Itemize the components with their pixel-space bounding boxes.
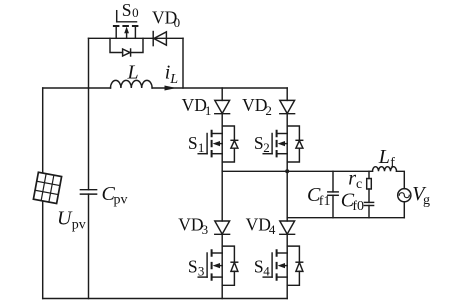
diode VD0: [153, 32, 166, 46]
diode VD3: [215, 171, 230, 298]
arrow i_L: [165, 86, 177, 91]
wire: S0 branch left vertical: [88, 38, 90, 88]
diode: S2 body diode branch: [287, 126, 303, 162]
svg-text:4: 4: [269, 222, 276, 237]
wire: filter bottom rail: [287, 217, 404, 219]
svg-text:1: 1: [198, 140, 205, 155]
wire: left outer vertical (PV branch): [42, 88, 44, 299]
wire: top main line left of inductor: [43, 87, 111, 89]
transistor S3: [198, 250, 222, 279]
wire: bottom rail: [43, 298, 288, 300]
drain stub: [115, 26, 117, 38]
transistor S4: [263, 250, 287, 279]
svg-text:3: 3: [198, 263, 205, 278]
svg-text:c: c: [356, 177, 362, 192]
wire: S0 branch top left segment: [89, 37, 117, 39]
svg-text:0: 0: [174, 15, 181, 30]
wire: S0 branch right vertical: [182, 38, 184, 88]
ac source Vg: [398, 189, 411, 218]
svg-text:pv: pv: [114, 192, 128, 207]
svg-text:4: 4: [263, 263, 270, 278]
svg-text:S: S: [188, 256, 198, 276]
capacitor Cf1: [328, 171, 338, 217]
inductor L: [111, 80, 153, 88]
channel segments: [114, 25, 137, 27]
svg-text:VD: VD: [178, 215, 203, 235]
svg-text:f: f: [390, 155, 395, 170]
resistor rc: [367, 171, 372, 202]
diode VD1: [215, 88, 230, 171]
wire: mid rail (node A): [222, 170, 372, 172]
svg-text:L: L: [169, 72, 178, 87]
wire: S0 branch right segment: [135, 37, 183, 39]
svg-text:pv: pv: [72, 217, 86, 232]
source stub: [134, 26, 136, 38]
diode: S4 body diode branch: [287, 246, 303, 285]
svg-text:U: U: [57, 208, 73, 230]
wire: Lf to corner: [397, 171, 405, 188]
capacitor Cpv: [80, 88, 96, 299]
svg-text:2: 2: [263, 140, 270, 155]
svg-text:g: g: [423, 193, 430, 208]
diode: S3 body diode branch: [222, 246, 238, 285]
svg-text:L: L: [378, 146, 390, 168]
svg-text:1: 1: [205, 103, 212, 118]
diode VD2: [280, 88, 295, 171]
transistor S0 (horizontal MOSFET): [114, 11, 137, 39]
svg-text:S: S: [122, 0, 132, 20]
solar panel Upv: [33, 172, 61, 203]
svg-text:0: 0: [132, 5, 139, 20]
svg-text:VD: VD: [182, 95, 207, 115]
svg-text:r: r: [348, 167, 356, 189]
svg-text:f1: f1: [319, 194, 331, 209]
capacitor Cf0: [364, 202, 373, 217]
junction dot: [285, 169, 289, 173]
svg-text:2: 2: [265, 103, 272, 118]
transistor S2: [263, 131, 287, 157]
diode: S1 body diode branch: [222, 126, 238, 162]
svg-text:VD: VD: [246, 215, 271, 235]
svg-text:f0: f0: [352, 199, 364, 214]
transistor S1: [198, 131, 222, 157]
diode VD4: [280, 171, 295, 298]
gate foot: [116, 11, 118, 22]
wire: S0 branch segment through mosfet: [116, 37, 135, 39]
gate line: [117, 21, 137, 23]
svg-text:S: S: [188, 133, 198, 153]
wire: top main line right of inductor: [152, 87, 287, 89]
svg-text:S: S: [254, 133, 264, 153]
arrow stub: [126, 33, 128, 39]
svg-text:VD: VD: [242, 95, 267, 115]
svg-text:S: S: [254, 256, 264, 276]
inductor Lf: [373, 167, 397, 172]
diode: S0 body diode loop: [110, 38, 143, 56]
svg-text:3: 3: [202, 222, 209, 237]
svg-text:L: L: [127, 62, 139, 84]
